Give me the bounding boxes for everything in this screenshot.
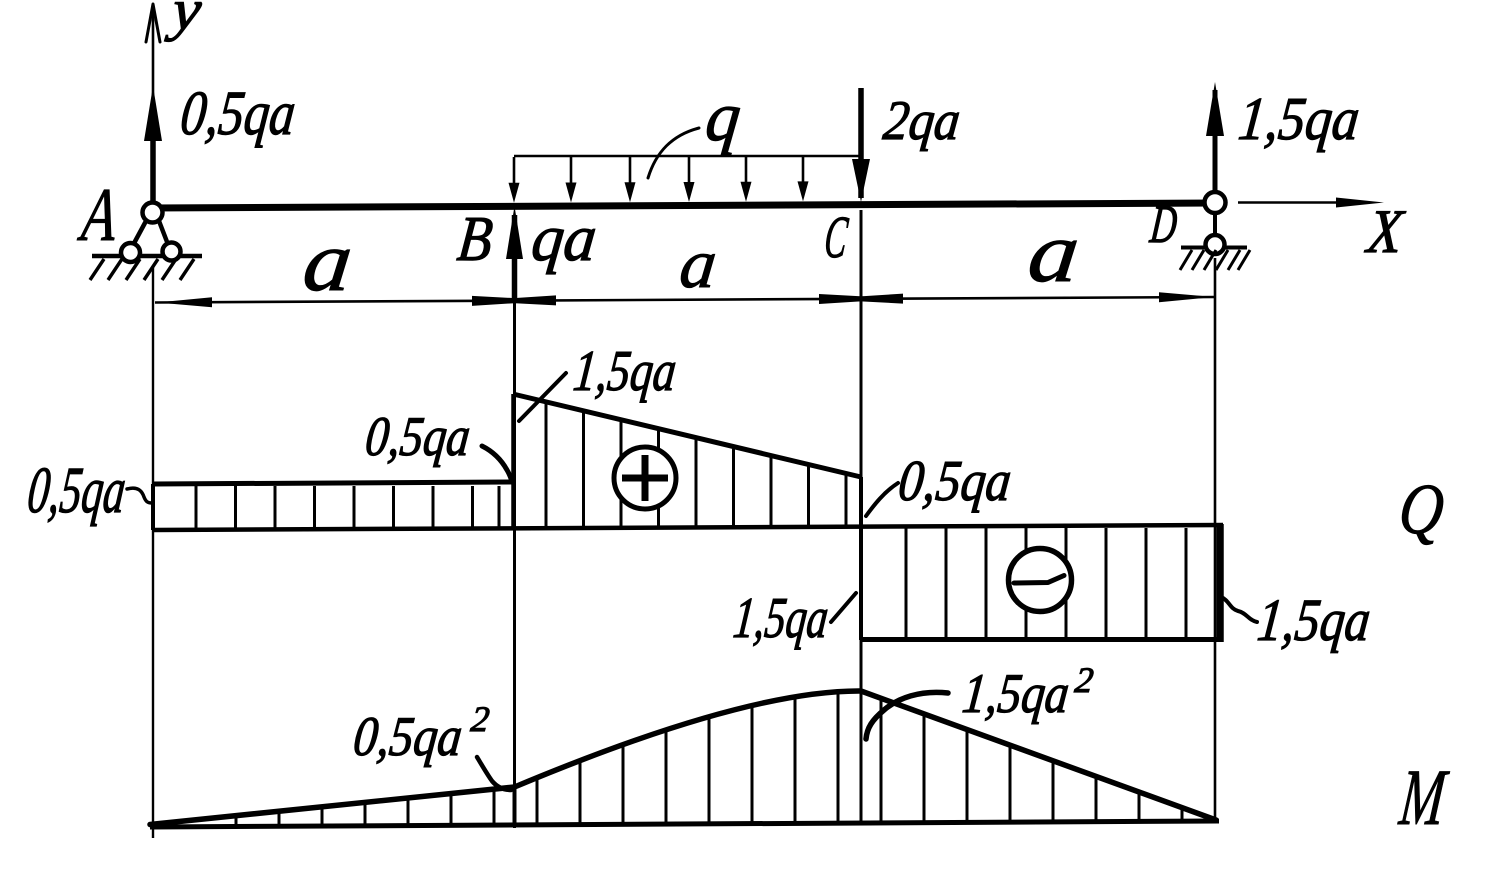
label 2qa [881, 90, 963, 152]
node label D [1147, 194, 1180, 254]
svg-text:0,5qa: 0,5qa [896, 448, 1015, 513]
svg-text:a: a [1024, 204, 1084, 300]
leader (Q at D) [1221, 597, 1257, 622]
dimension label a (A-B) [299, 213, 357, 309]
Q jump at C [859, 477, 863, 640]
svg-text:1,5qa: 1,5qa [1255, 587, 1374, 654]
node label A [75, 173, 122, 257]
construction line at D [1214, 258, 1217, 821]
x-axis label X [1362, 198, 1408, 266]
beam AD [150, 203, 1216, 208]
y-axis label y [164, 0, 204, 42]
svg-text:qa: qa [528, 202, 600, 275]
leader (Q right of C) [866, 483, 898, 516]
M baseline [150, 821, 1219, 827]
node label C [822, 204, 852, 271]
svg-text:Q: Q [1395, 469, 1447, 549]
label 0,5qa (Q at A) [24, 454, 129, 527]
svg-text:0,5qa: 0,5qa [178, 78, 299, 148]
force 2qa at C (down arrow) [852, 88, 870, 202]
svg-text:1,5qa: 1,5qa [1236, 85, 1363, 153]
pin support at A [90, 203, 202, 281]
Q diagram C-D rectangle (-1,5qa) [861, 524, 1223, 642]
load label q [702, 78, 744, 156]
label 1,5qa (Q at B) [571, 338, 680, 403]
distributed load q (B to C) [509, 156, 862, 203]
dimension line a-a-a [155, 292, 1216, 307]
Q diagram A-B rectangle (0,5qa) [153, 482, 515, 530]
leader (M at B) [477, 757, 511, 790]
node label B [455, 203, 496, 274]
leader (Q at A) [127, 488, 152, 503]
label 1,5qa (reaction at D) [1236, 85, 1363, 153]
svg-text:1,5qa: 1,5qa [960, 663, 1072, 725]
diagram label Q [1395, 469, 1447, 549]
diagram label M [1395, 754, 1452, 842]
label 0,5qa (Q left of B) [363, 406, 473, 468]
leader (Q at B) [519, 373, 566, 421]
reaction force 1,5qa at D (arrow) [1206, 82, 1224, 192]
Q baseline [153, 525, 1223, 530]
x-axis [1238, 198, 1384, 208]
roller support at D [1180, 192, 1250, 270]
svg-text:1,5qa: 1,5qa [731, 585, 832, 650]
minus sign circle [1009, 549, 1072, 612]
label 1,5qa2 (M at C) [960, 660, 1096, 725]
svg-text:0,5qa: 0,5qa [24, 454, 129, 527]
Q diagram B-C trapezoid [513, 394, 861, 530]
M diagram hatching [236, 694, 1182, 825]
force qa at B (up arrow) [506, 206, 523, 302]
label 0,5qa (reaction at A) [178, 78, 299, 148]
label qa [528, 202, 600, 275]
svg-text:0,5qa: 0,5qa [363, 406, 473, 468]
M curve [150, 691, 1216, 825]
leader (M at C) [866, 692, 948, 739]
construction line at C [860, 210, 863, 824]
label 1,5qa (Q at D) [1255, 587, 1374, 654]
leader (Q left of B) [482, 446, 513, 482]
construction line at A [152, 266, 154, 838]
M value edge at B [513, 789, 517, 826]
label 0,5qa (Q right of C) [896, 448, 1015, 513]
y-axis [146, 4, 160, 200]
svg-text:a: a [299, 213, 357, 309]
plus sign circle [614, 447, 676, 509]
label 0,5qa2 (M at B) [351, 699, 492, 768]
dimension label a (B-C) [676, 225, 720, 303]
reaction force 0,5qa at A (arrow) [144, 86, 162, 205]
construction line at B [513, 302, 516, 828]
svg-text:1,5qa: 1,5qa [571, 338, 680, 403]
dimension label a (C-D) [1024, 204, 1084, 300]
label 1,5qa (Q left of C) [731, 585, 832, 650]
svg-text:2qa: 2qa [881, 90, 963, 152]
svg-text:0,5qa: 0,5qa [351, 706, 465, 768]
leader (Q left of C) [831, 593, 856, 622]
leader for q [648, 128, 699, 178]
